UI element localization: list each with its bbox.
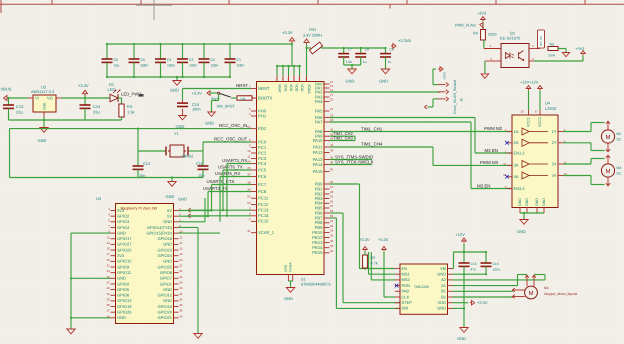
svg-text:20: 20 [330,98,334,102]
svg-text:TIM1_CH1: TIM1_CH1 [361,126,383,131]
svg-text:M3 EN: M3 EN [477,183,490,188]
svg-text:FB1: FB1 [309,27,316,32]
svg-text:100n: 100n [237,64,245,68]
svg-text:GPIO16: GPIO16 [158,304,173,309]
svg-text:USART3_TX: USART3_TX [203,186,228,191]
svg-text:+3.3V: +3.3V [477,300,488,305]
svg-text:PA4: PA4 [315,99,323,104]
svg-text:38: 38 [179,309,183,313]
svg-text:1A: 1A [514,129,519,134]
svg-text:1Y: 1Y [552,129,557,134]
svg-text:PWR_FLAG: PWR_FLAG [455,24,476,28]
svg-text:C5: C5 [141,58,146,62]
svg-text:100u: 100u [493,268,501,272]
svg-text:PWM M2: PWM M2 [484,126,503,131]
svg-text:2Y: 2Y [552,140,557,145]
svg-text:GPIO3: GPIO3 [117,219,130,224]
svg-text:EN3,4: EN3,4 [514,186,526,191]
svg-text:35: 35 [330,244,334,248]
svg-text:3.3V 20MH: 3.3V 20MH [303,34,322,38]
svg-text:GND: GND [163,219,172,224]
svg-text:GPIO11: GPIO11 [117,270,132,275]
svg-text:GPIO27: GPIO27 [117,242,132,247]
svg-text:PH1: PH1 [258,113,267,118]
svg-text:19: 19 [107,258,111,262]
svg-text:GND: GND [166,194,175,199]
svg-text:GND: GND [457,336,466,341]
svg-text:15: 15 [107,247,111,251]
svg-text:PC12: PC12 [258,202,269,207]
svg-text:3V3: 3V3 [117,208,125,213]
svg-text:PDN: PDN [402,283,411,288]
svg-text:26: 26 [179,275,183,279]
svg-text:PC6: PC6 [258,174,267,179]
svg-text:16: 16 [521,110,525,114]
svg-text:GPIO17: GPIO17 [117,236,132,241]
svg-text:PA11: PA11 [313,144,323,149]
svg-text:C6: C6 [114,58,119,62]
svg-text:PA14: PA14 [313,162,324,167]
svg-text:22u: 22u [93,110,100,115]
svg-text:1.0u: 1.0u [346,60,353,64]
svg-text:3A: 3A [514,163,519,168]
svg-text:PA7: PA7 [315,119,323,124]
svg-text:STM32F446RETx: STM32F446RETx [301,282,331,286]
svg-text:Raspberry Pi Zero 2W: Raspberry Pi Zero 2W [121,207,158,211]
svg-text:+3V3: +3V3 [477,11,486,16]
svg-text:M4: M4 [617,166,622,170]
svg-text:21: 21 [107,264,111,268]
svg-text:24: 24 [179,269,183,273]
svg-text:VCAP_1: VCAP_1 [258,230,275,235]
svg-text:GPIO13: GPIO13 [117,298,132,303]
svg-text:61: 61 [330,219,334,223]
svg-text:1u: 1u [363,60,367,64]
svg-text:DC: DC [617,172,622,176]
svg-text:29: 29 [330,229,334,233]
svg-text:50: 50 [330,168,334,172]
svg-text:GPIO6: GPIO6 [117,293,130,298]
svg-text:100n: 100n [211,64,219,68]
svg-text:Conn_01x03_Socket: Conn_01x03_Socket [453,80,457,114]
svg-text:+3.3VA: +3.3VA [398,38,411,43]
svg-text:Stepper_Motor_bipolar: Stepper_Motor_bipolar [544,292,578,296]
svg-text:12: 12 [179,235,183,239]
svg-text:10k: 10k [240,97,246,101]
svg-text:37: 37 [107,309,111,313]
svg-text:+3V3: +3V3 [443,72,447,80]
svg-text:M3 EN: M3 EN [485,148,498,153]
svg-text:GPIO14(TXD): GPIO14(TXD) [147,225,173,230]
svg-text:GPIO21: GPIO21 [158,315,173,320]
svg-text:4A: 4A [514,174,519,179]
svg-text:2200: 2200 [488,33,496,37]
svg-text:14: 14 [179,241,183,245]
svg-text:DIR: DIR [402,306,409,311]
svg-text:500n: 500n [141,64,149,68]
svg-text:CLK: CLK [402,294,410,299]
svg-text:34: 34 [330,239,334,243]
svg-text:PC11: PC11 [258,196,269,201]
svg-text:M: M [529,290,534,297]
svg-text:LED: LED [108,87,116,92]
svg-text:PC15: PC15 [258,219,269,224]
svg-text:33: 33 [107,297,111,301]
svg-text:22u: 22u [16,110,23,115]
svg-text:36: 36 [330,249,334,253]
svg-text:1.5k: 1.5k [127,110,135,115]
svg-text:VCC1: VCC1 [527,117,531,127]
svg-text:4.7k: 4.7k [371,262,378,266]
svg-text:45: 45 [330,149,334,153]
svg-text:VDD: VDD [283,84,287,92]
svg-text:RCC_OSC_OUT: RCC_OSC_OUT [214,137,247,142]
svg-text:VBAT: VBAT [277,84,281,94]
svg-text:20: 20 [179,258,183,262]
svg-text:100n: 100n [189,64,197,68]
svg-text:29: 29 [107,286,111,290]
svg-text:GND: GND [117,276,126,281]
svg-text:VM: VM [440,266,446,271]
svg-text:VDDA: VDDA [307,84,311,94]
svg-text:47u: 47u [471,268,477,272]
svg-text:GPIO5: GPIO5 [117,287,130,292]
svg-text:28: 28 [330,190,334,194]
svg-text:GND: GND [178,197,187,202]
svg-text:GPIO25: GPIO25 [158,264,173,269]
svg-text:+12V+12V: +12V+12V [520,80,539,85]
svg-text:100n: 100n [167,64,175,68]
svg-text:GND: GND [163,259,172,264]
svg-text:C8: C8 [365,48,369,52]
svg-text:Y1: Y1 [174,131,179,136]
svg-text:RCC_OSC_IN: RCC_OSC_IN [219,123,247,128]
svg-text:GPIO22: GPIO22 [117,247,132,252]
svg-text:USART6_TX: USART6_TX [218,165,243,170]
svg-text:VCC2: VCC2 [538,117,542,127]
svg-text:GPIO4: GPIO4 [117,225,130,230]
svg-text:30: 30 [179,286,183,290]
svg-text:40: 40 [179,314,183,318]
svg-text:21: 21 [330,107,334,111]
svg-text:M2: M2 [617,132,622,136]
svg-text:1mA: 1mA [548,54,556,58]
svg-text:17: 17 [330,93,334,97]
svg-text:A1: A1 [441,283,447,288]
svg-text:PA5: PA5 [315,108,323,113]
svg-text:VBUS: VBUS [1,87,12,92]
svg-text:AMS1117-3.3: AMS1117-3.3 [31,89,54,94]
svg-text:GPIO23: GPIO23 [158,247,173,252]
svg-text:23: 23 [107,269,111,273]
svg-text:C7: C7 [348,48,352,52]
svg-text:GND: GND [379,79,388,84]
svg-text:3V3: 3V3 [117,253,125,258]
svg-text:PA10: PA10 [313,138,324,143]
svg-text:GPIO12: GPIO12 [158,293,173,298]
svg-text:USART6_RX: USART6_RX [215,171,240,176]
svg-text:GND: GND [437,306,446,311]
svg-text:PC0: PC0 [258,139,267,144]
svg-text:62: 62 [330,224,334,228]
svg-text:5V: 5V [167,208,172,213]
svg-text:GND: GND [517,229,526,234]
svg-text:18: 18 [179,252,183,256]
svg-text:28: 28 [179,280,183,284]
svg-text:GND: GND [163,298,172,303]
svg-text:+3.3V: +3.3V [378,237,389,242]
svg-text:22: 22 [179,264,183,268]
svg-text:10u: 10u [114,64,120,68]
svg-text:GND: GND [163,242,172,247]
svg-text:GND: GND [38,138,47,143]
svg-text:PC2: PC2 [258,150,267,155]
svg-text:53: 53 [247,201,251,205]
svg-text:SW_SPDT: SW_SPDT [217,105,236,109]
svg-text:PA12: PA12 [313,150,324,155]
svg-text:VDD: VDD [438,300,447,305]
svg-text:VI: VI [35,96,39,101]
svg-text:56: 56 [330,200,334,204]
svg-text:U3: U3 [96,196,102,201]
svg-text:+3.3V: +3.3V [282,30,293,35]
svg-text:PC1: PC1 [258,145,267,150]
svg-text:57: 57 [330,204,334,208]
svg-text:GPIO15(RXD): GPIO15(RXD) [146,230,172,235]
svg-text:GPIO26: GPIO26 [117,310,132,315]
svg-text:R2: R2 [371,256,376,260]
svg-text:GND: GND [117,315,126,320]
svg-text:TMC2209: TMC2209 [414,285,429,289]
svg-text:GND: GND [163,287,172,292]
svg-text:15: 15 [503,173,507,177]
svg-text:B1: B1 [441,289,447,294]
svg-text:+3.3V: +3.3V [192,91,203,96]
svg-text:EN1,2: EN1,2 [514,150,526,155]
svg-text:L293D: L293D [545,106,557,111]
svg-text:USART3_RX: USART3_RX [222,158,247,163]
svg-text:VDD: VDD [300,84,304,92]
svg-text:R4: R4 [473,32,478,36]
svg-text:LED_PWR: LED_PWR [121,92,141,97]
svg-text:3Y: 3Y [552,161,557,166]
svg-text:13: 13 [107,241,111,245]
svg-text:NRST: NRST [258,86,270,91]
svg-text:DC: DC [617,138,622,142]
svg-text:10: 10 [503,162,507,166]
svg-text:GPIO2: GPIO2 [117,213,130,218]
svg-text:C14: C14 [93,104,101,109]
svg-text:GPIO19: GPIO19 [117,304,132,309]
svg-text:PC8: PC8 [258,189,267,194]
svg-text:C16: C16 [493,262,499,266]
svg-text:33: 33 [330,234,334,238]
svg-text:PC4: PC4 [258,161,267,166]
svg-text:PAD: PAD [402,289,410,294]
svg-text:27: 27 [330,185,334,189]
svg-text:32: 32 [179,292,183,296]
svg-text:GPIO18: GPIO18 [158,236,173,241]
svg-text:27: 27 [107,280,111,284]
svg-text:GND: GND [205,121,214,126]
svg-text:36: 36 [179,303,183,307]
svg-text:C4: C4 [167,58,172,62]
svg-text:STEP: STEP [402,300,413,305]
svg-text:55: 55 [330,195,334,199]
svg-text:GPIO24: GPIO24 [158,253,173,258]
svg-text:C12: C12 [143,161,150,166]
svg-text:GND: GND [170,88,179,93]
svg-text:100n: 100n [192,106,201,111]
svg-text:17: 17 [107,252,111,256]
svg-text:+3.3V: +3.3V [359,237,370,242]
svg-text:M: M [606,134,611,141]
svg-text:SYS_JTCK-SWCLK: SYS_JTCK-SWCLK [335,159,374,164]
svg-text:PWM M3: PWM M3 [480,160,499,165]
svg-text:M3: M3 [544,286,549,290]
svg-text:+12V: +12V [456,232,466,237]
svg-text:J5: J5 [460,98,464,102]
svg-text:GND: GND [518,198,522,206]
svg-text:GPIO0: GPIO0 [117,281,130,286]
svg-text:+3V3: +3V3 [576,47,585,51]
svg-text:MS2: MS2 [402,277,411,282]
svg-text:U4: U4 [545,101,551,106]
svg-text:GPIO20: GPIO20 [158,310,173,315]
svg-text:M: M [606,168,611,175]
svg-text:GND: GND [117,230,126,235]
svg-text:5V: 5V [167,213,172,218]
svg-text:EE-SX1070: EE-SX1070 [500,36,521,41]
svg-text:4Y: 4Y [552,173,557,178]
svg-text:GND: GND [284,296,293,301]
svg-text:EN: EN [402,266,408,271]
svg-text:VO: VO [47,96,53,101]
svg-text:GPIO7: GPIO7 [160,276,173,281]
svg-text:PC7: PC7 [258,182,267,187]
svg-text:34: 34 [179,297,183,301]
svg-text:GPIO9: GPIO9 [117,264,130,269]
svg-text:GPIO1: GPIO1 [160,281,173,286]
svg-text:GPIO10: GPIO10 [117,259,132,264]
svg-text:C1: C1 [237,58,242,62]
svg-text:VSSA: VSSA [289,262,293,272]
svg-text:11: 11 [247,155,250,159]
svg-text:GND: GND [437,272,446,277]
svg-text:10: 10 [247,149,251,153]
svg-text:A2: A2 [441,277,447,282]
svg-text:GND: GND [346,79,355,84]
svg-text:C15: C15 [471,262,477,266]
svg-text:PC13: PC13 [258,208,269,213]
svg-text:16: 16 [179,247,183,251]
svg-text:PD2: PD2 [258,126,267,131]
svg-text:TIM1_CH4: TIM1_CH4 [361,142,383,147]
svg-text:PA15: PA15 [313,169,324,174]
svg-text:35: 35 [107,303,111,307]
svg-text:GND: GND [525,198,529,206]
svg-text:R5: R5 [550,43,555,47]
svg-text:BOOT0: BOOT0 [258,95,273,100]
svg-text:R3: R3 [127,104,133,109]
svg-text:31: 31 [247,229,251,233]
svg-text:C13: C13 [16,104,24,109]
svg-text:NRST: NRST [236,83,248,88]
svg-text:C11: C11 [196,161,203,166]
svg-text:PB15: PB15 [312,250,323,255]
svg-text:VDD: VDD [289,84,293,92]
svg-text:11: 11 [107,235,110,239]
svg-text:C3: C3 [189,58,194,62]
svg-text:TIM1_CH3: TIM1_CH3 [333,135,354,140]
svg-text:MS1: MS1 [402,272,411,277]
svg-text:GND: GND [542,198,546,206]
svg-text:1u: 1u [388,60,392,64]
svg-text:GND: GND [535,198,539,206]
svg-text:RPI_RX: RPI_RX [539,35,543,46]
svg-text:U1: U1 [301,278,306,282]
svg-text:B2: B2 [441,294,447,299]
svg-text:16MHz: 16MHz [181,154,193,159]
svg-text:52: 52 [247,194,251,198]
svg-text:GND: GND [43,102,47,110]
svg-text:31: 31 [107,292,111,296]
svg-text:VDD: VDD [294,84,298,92]
svg-text:2A: 2A [514,140,519,145]
svg-text:GPIO8: GPIO8 [160,270,173,275]
svg-text:+3.3V: +3.3V [78,83,89,88]
svg-text:PC5: PC5 [258,167,267,172]
svg-text:C2: C2 [211,58,216,62]
svg-text:PC14: PC14 [258,213,269,218]
